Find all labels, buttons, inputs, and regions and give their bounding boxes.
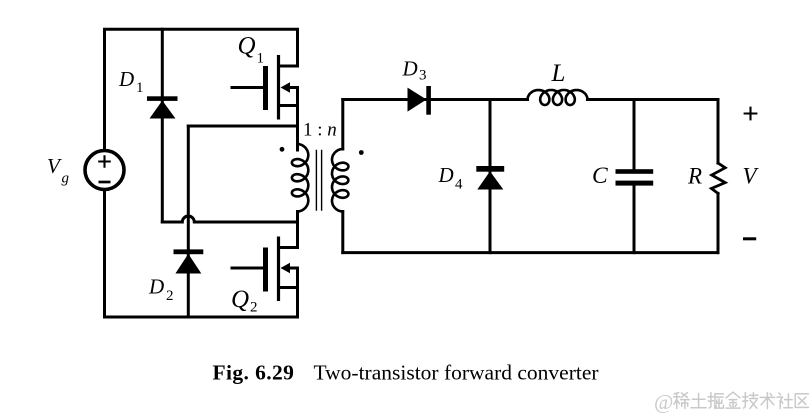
svg-text:D: D <box>402 57 418 81</box>
svg-text:Two-transistor forward convert: Two-transistor forward converter <box>314 361 599 385</box>
svg-text:1 : n: 1 : n <box>303 120 337 141</box>
svg-text:3: 3 <box>419 68 427 84</box>
svg-text:Fig. 6.29: Fig. 6.29 <box>213 361 295 385</box>
svg-text:1: 1 <box>136 80 144 96</box>
svg-text:V: V <box>47 154 62 178</box>
svg-text:L: L <box>551 60 566 87</box>
svg-text:2: 2 <box>250 300 258 316</box>
svg-text:2: 2 <box>166 288 174 304</box>
svg-text:1: 1 <box>257 51 265 67</box>
svg-text:C: C <box>592 163 608 189</box>
svg-text:4: 4 <box>455 177 463 193</box>
svg-text:Q: Q <box>238 33 256 60</box>
svg-text:Q: Q <box>231 286 249 313</box>
svg-text:D: D <box>438 163 454 187</box>
svg-text:R: R <box>687 163 702 188</box>
svg-text:@: @ <box>654 390 673 414</box>
svg-text:D: D <box>118 67 134 91</box>
svg-text:D: D <box>148 275 164 299</box>
svg-text:g: g <box>62 170 70 186</box>
